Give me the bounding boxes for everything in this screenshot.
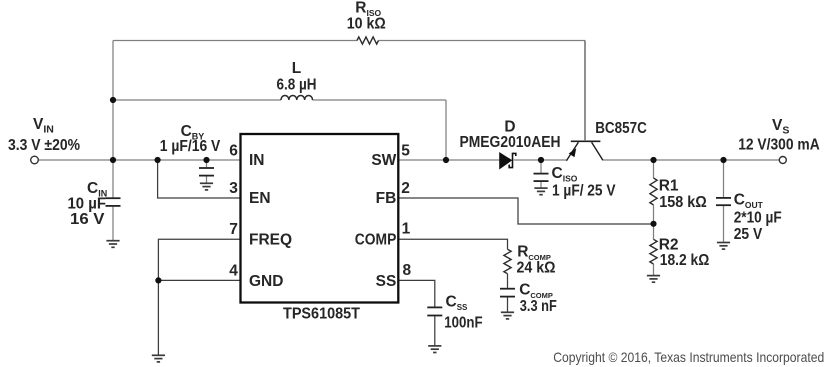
svg-text:1 µF/ 25 V: 1 µF/ 25 V: [552, 183, 616, 200]
wire SW to diode: [398, 159, 499, 161]
capacitor COUT: [716, 198, 731, 205]
wire COMP path: [398, 239, 507, 249]
svg-text:5: 5: [401, 143, 410, 160]
wire RISO rail left: [113, 40, 357, 42]
terminal VS: [779, 157, 786, 164]
svg-text:GND: GND: [249, 273, 283, 290]
wire FREQ branch: [158, 239, 240, 355]
svg-text:SS: SS: [376, 273, 397, 290]
svg-text:10 kΩ: 10 kΩ: [347, 16, 386, 33]
wire COUT stem bottom: [723, 206, 725, 242]
svg-text:1 µF/16 V: 1 µF/16 V: [160, 138, 221, 155]
wire transistor base lead: [584, 41, 586, 141]
svg-text:FB: FB: [376, 190, 397, 207]
svg-text:3.3 nF: 3.3 nF: [520, 298, 557, 315]
wire CSS to ground: [434, 316, 436, 345]
wire SS path: [398, 280, 435, 306]
transistor Q1 BC857C: [566, 141, 603, 161]
diode D PMEG2010AEH: [500, 153, 516, 169]
capacitor CIN: [106, 198, 121, 206]
node SW / L junction: [443, 157, 449, 163]
node GND-FREQ junction: [155, 277, 161, 283]
wire CBY stem top: [206, 160, 208, 167]
wire L rail left: [113, 99, 281, 101]
svg-text:18.2 kΩ: 18.2 kΩ: [660, 252, 710, 269]
capacitor CSS: [427, 307, 442, 315]
resistor RISO: [357, 37, 379, 44]
wire EN branch: [158, 160, 241, 198]
svg-text:Copyright © 2016, Texas Instru: Copyright © 2016, Texas Instruments Inco…: [553, 349, 824, 365]
wire CCOMP to ground: [507, 297, 509, 311]
wire R2 bottom stem: [653, 264, 655, 275]
svg-text:158 kΩ: 158 kΩ: [659, 194, 707, 211]
svg-text:BC857C: BC857C: [595, 120, 647, 137]
terminal VIN: [31, 156, 39, 164]
node VIN rail / CIN: [110, 157, 116, 163]
resistor R1: [650, 178, 657, 205]
wire diode to emitter: [514, 159, 567, 161]
wire R1-R2 mid: [653, 205, 655, 239]
svg-text:3: 3: [229, 180, 238, 197]
node CBY tap: [203, 157, 209, 163]
capacitor CBY: [199, 168, 214, 176]
op-amp U1 TPS61085T box: [241, 134, 399, 303]
svg-text:PMEG2010AEH: PMEG2010AEH: [460, 134, 561, 151]
ground CCOMP: [501, 312, 514, 319]
ground R2: [647, 276, 660, 283]
svg-text:24 kΩ: 24 kΩ: [517, 260, 556, 277]
svg-text:10 µF: 10 µF: [68, 196, 107, 213]
svg-text:16 V: 16 V: [70, 211, 105, 228]
node COUT top: [720, 157, 726, 163]
node R1 top: [650, 157, 656, 163]
svg-text:TPS61085T: TPS61085T: [283, 306, 360, 323]
wire GND pin branch: [158, 279, 240, 281]
wire CISO stem bottom: [540, 182, 542, 188]
svg-text:4: 4: [229, 263, 238, 280]
wire FB path: [398, 198, 653, 224]
ground COUT: [717, 243, 730, 250]
node VIN-RISO junction: [110, 97, 116, 103]
wire VIN rail: [38, 159, 240, 161]
svg-text:2: 2: [401, 180, 410, 197]
ground CBY: [200, 183, 213, 190]
svg-text:COMP: COMP: [355, 231, 397, 248]
svg-text:1: 1: [402, 220, 411, 237]
wire CIN stem top: [112, 160, 114, 197]
svg-text:FREQ: FREQ: [249, 231, 292, 248]
wire L rail right: [313, 99, 447, 101]
svg-text:R1: R1: [659, 178, 679, 195]
wire COUT stem top: [723, 160, 725, 197]
capacitor CISO: [534, 174, 549, 182]
wire left vertical VIN to RISO rail: [112, 41, 114, 161]
wire L to SW node: [445, 100, 447, 160]
capacitor CCOMP: [500, 289, 515, 297]
ground FREQ-GND: [152, 355, 165, 362]
wire CIN stem bottom: [112, 207, 114, 241]
resistor RCOMP: [504, 249, 511, 273]
node FB / R1-R2 junction: [650, 221, 656, 227]
svg-text:2*10 µF: 2*10 µF: [734, 209, 782, 226]
wire RCOMP to CCOMP: [507, 274, 509, 288]
svg-text:12 V/300 mA: 12 V/300 mA: [738, 137, 820, 154]
svg-text:8: 8: [403, 262, 412, 279]
svg-text:6.8 µH: 6.8 µH: [277, 76, 317, 93]
node CISO / emitter: [538, 157, 544, 163]
svg-text:L: L: [292, 60, 301, 77]
wire CISO stem top: [540, 160, 542, 173]
svg-text:25 V: 25 V: [734, 226, 763, 243]
svg-text:R2: R2: [659, 236, 679, 253]
wire RISO rail right: [379, 40, 586, 42]
svg-text:7: 7: [229, 221, 238, 238]
ground CSS: [428, 346, 441, 353]
resistor R2: [650, 239, 657, 264]
wire collector to VS: [603, 159, 780, 161]
svg-text:EN: EN: [249, 190, 271, 207]
wire CBY stem bottom: [206, 176, 208, 182]
svg-text:SW: SW: [371, 152, 396, 169]
ground CIN: [106, 241, 119, 248]
svg-text:3.3 V ±20%: 3.3 V ±20%: [8, 137, 80, 154]
svg-text:100nF: 100nF: [444, 315, 482, 332]
wire R1 top stem: [653, 160, 655, 178]
node EN tap: [155, 157, 161, 163]
svg-text:IN: IN: [249, 152, 265, 169]
svg-text:6: 6: [229, 143, 238, 160]
ground CISO: [534, 188, 547, 195]
inductor L: [281, 95, 313, 100]
